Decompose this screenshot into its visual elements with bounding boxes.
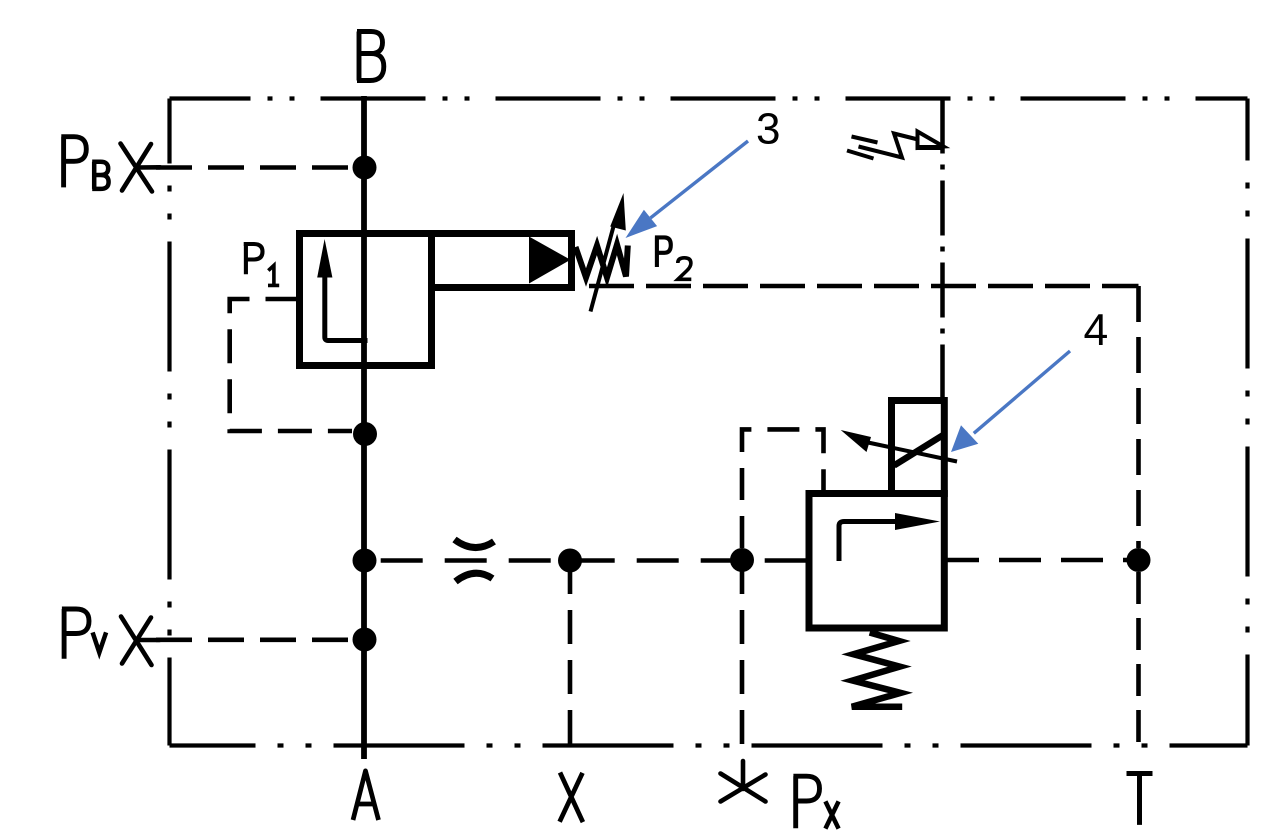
enclosure border top [170, 96, 1248, 100]
measuring point X at PV [121, 617, 160, 666]
spring of valve U2 [852, 633, 902, 707]
port Px label [793, 776, 819, 828]
label P1 [244, 244, 263, 274]
valve U1 internal flow arrow [325, 272, 368, 341]
valve U2 crossed diagonal [894, 435, 944, 466]
valve U2 internal flow arrow [839, 522, 897, 562]
valve U1 body (pressure reducing valve) [300, 234, 432, 366]
wire P1 pilot dashed loop [230, 299, 352, 431]
orifice restrictor [455, 540, 495, 548]
callout arrow 3 [651, 141, 749, 218]
label P2 [655, 237, 671, 267]
node junction dot rail/T-line [1127, 548, 1151, 572]
port T label [1127, 774, 1153, 825]
node junction dot rail/Px-line [730, 548, 754, 572]
wire PB dashed line to B [156, 165, 354, 170]
wire PV dashed line to A [156, 637, 354, 642]
enclosure border right [1245, 99, 1249, 746]
wire B-A main vertical line [361, 96, 367, 759]
wire P2 rail corner down to T [1136, 286, 1141, 548]
valve U2 top box [892, 401, 945, 494]
port PV label [62, 609, 89, 659]
node junction dot pilot/A-line [353, 422, 377, 446]
adjustment arrow of valve U1 [591, 219, 616, 312]
port X label [560, 773, 583, 823]
wire Px port dashed vertical [740, 560, 745, 745]
enclosure border left [167, 99, 171, 746]
node junction dot B/PB [353, 156, 377, 180]
wire T port dashed vertical [1136, 572, 1141, 748]
wire P2 dashed rail [578, 284, 1139, 289]
svg-text:3: 3 [756, 105, 780, 154]
measuring point star at Px [721, 761, 766, 802]
node junction dot A/PV [353, 628, 377, 652]
measuring point X at PB [121, 144, 161, 192]
wire main dashed rail y=560 right part [947, 558, 1139, 563]
vent center line (dash-dot vertical) [940, 99, 945, 401]
spring of valve U1 [576, 245, 628, 278]
node junction dot rail/A-line [353, 549, 377, 573]
svg-text:4: 4 [1084, 306, 1109, 355]
valve U1 pilot channel top line [431, 230, 574, 237]
callout arrow 4 [974, 351, 1070, 433]
enclosure border bottom [170, 743, 1248, 747]
port A label [353, 771, 379, 820]
valve U1 pilot channel bottom line [431, 284, 574, 291]
valve U1 pilot triangle [529, 237, 571, 284]
electric vent zigzag symbol [847, 132, 944, 159]
valve U2 adjustment arrow [868, 443, 957, 462]
port B label [357, 32, 384, 81]
valve U1 pilot channel end wall [568, 230, 575, 291]
wire main dashed rail y=560 left part [364, 558, 808, 563]
valve U2 body [809, 494, 944, 629]
wire X port dashed vertical [568, 560, 573, 757]
wire pilot dashed loop of valve U2 [742, 429, 824, 548]
node junction dot rail/X-line [558, 549, 582, 573]
port PB label [61, 137, 86, 188]
